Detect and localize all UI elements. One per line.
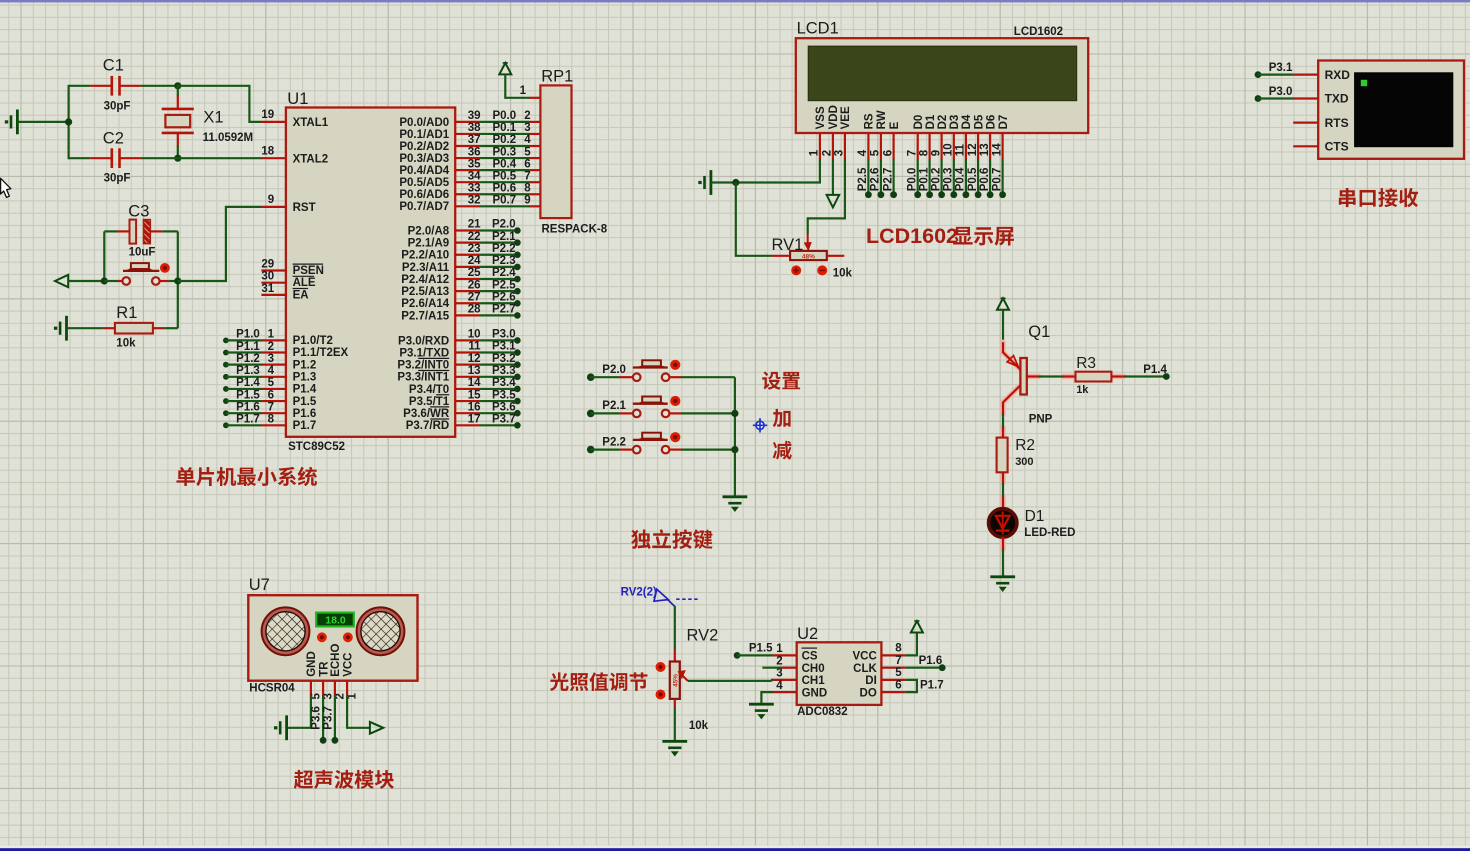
svg-text:HCSR04: HCSR04 (249, 683, 295, 695)
svg-text:P3.0: P3.0 (1269, 86, 1293, 98)
svg-text:8: 8 (918, 149, 930, 156)
svg-text:36: 36 (468, 146, 481, 158)
svg-text:4: 4 (776, 680, 783, 692)
svg-text:38: 38 (468, 122, 481, 134)
svg-text:29: 29 (261, 258, 274, 270)
wire net P2.5 (867, 159, 869, 195)
svg-text:P3.1: P3.1 (1269, 62, 1293, 74)
crystal X1 (177, 95, 179, 109)
svg-text:9: 9 (268, 194, 274, 206)
svg-text:U2: U2 (797, 625, 818, 643)
pin XTAL1 stub (261, 121, 286, 123)
svg-text:RV2(2): RV2(2) (621, 587, 657, 599)
svg-text:P2.4/A12: P2.4/A12 (401, 274, 449, 286)
LCD1 LCD1602 module body (796, 38, 1088, 133)
svg-text:31: 31 (261, 283, 274, 295)
svg-text:P0.6: P0.6 (492, 182, 516, 194)
svg-text:P0.1/AD1: P0.1/AD1 (399, 129, 449, 141)
svg-text:TR: TR (318, 661, 330, 677)
svg-text:P0.7: P0.7 (492, 195, 516, 207)
svg-text:2: 2 (822, 150, 834, 156)
svg-text:P0.0/AD0: P0.0/AD0 (399, 117, 449, 129)
svg-text:P2.5/A13: P2.5/A13 (401, 286, 449, 298)
push button P2.2 (619, 449, 632, 451)
svg-text:P2.0: P2.0 (492, 219, 516, 231)
svg-text:C3: C3 (128, 203, 149, 221)
wire P0.6 (455, 193, 480, 195)
wire P0.2 (455, 145, 480, 147)
svg-text:4: 4 (857, 149, 869, 156)
svg-text:C2: C2 (103, 129, 124, 147)
wire net P0.3 (953, 159, 955, 195)
svg-text:RTS: RTS (1325, 116, 1349, 130)
svg-text:P0.6/AD6: P0.6/AD6 (399, 189, 449, 201)
svg-text:D1: D1 (1025, 508, 1045, 525)
transducer left (262, 607, 310, 655)
svg-text:P1.6: P1.6 (919, 655, 943, 667)
svg-text:19: 19 (261, 109, 274, 121)
svg-text:1: 1 (776, 643, 783, 655)
wire to RV2 top (674, 606, 676, 649)
svg-text:18.0: 18.0 (325, 614, 346, 626)
svg-text:P2.2: P2.2 (602, 436, 626, 448)
node P3.5 (455, 400, 480, 402)
node P3.2 (455, 364, 480, 366)
node P3.0 (455, 339, 480, 341)
ground (U7) (285, 715, 288, 740)
svg-text:7: 7 (524, 170, 530, 182)
svg-text:CH0: CH0 (802, 663, 825, 675)
junction ground rail (65, 118, 72, 125)
node P2.1 (455, 242, 480, 244)
wire Q1 base to R3 (1038, 375, 1064, 377)
svg-text:CTS: CTS (1325, 140, 1349, 154)
terminal arrow left (reset) (55, 275, 68, 287)
svg-text:P1.3: P1.3 (293, 371, 317, 383)
node P2.2 (455, 254, 480, 256)
svg-text:18: 18 (261, 146, 274, 158)
svg-text:P1.0/T2: P1.0/T2 (293, 335, 333, 347)
svg-text:ECHO: ECHO (330, 644, 342, 677)
svg-text:P2.0: P2.0 (602, 364, 626, 376)
svg-text:300: 300 (1015, 456, 1033, 468)
svg-text:VCC: VCC (342, 653, 354, 677)
svg-text:P0.4: P0.4 (492, 158, 516, 170)
svg-text:P1.6: P1.6 (293, 408, 317, 420)
capacitor C2 (90, 157, 111, 159)
junction X1 bottom (174, 155, 181, 162)
svg-text:P2.7: P2.7 (492, 304, 516, 316)
svg-text:28: 28 (468, 304, 481, 316)
svg-text:3: 3 (323, 693, 335, 699)
wire reset to RST pin (178, 207, 262, 281)
svg-text:D2: D2 (937, 115, 949, 130)
svg-text:37: 37 (468, 134, 481, 146)
power terminal (RP1) (499, 63, 511, 75)
svg-text:P0.4: P0.4 (955, 167, 967, 191)
svg-text:P3.0: P3.0 (492, 329, 516, 341)
svg-text:P3.4: P3.4 (492, 377, 516, 389)
svg-text:P1.2: P1.2 (236, 353, 260, 365)
power terminal down (LCD VDD) (832, 159, 834, 195)
IC U2 ADC0832 body (797, 642, 882, 705)
pin DI (U2) (881, 679, 905, 681)
svg-text:XTAL2: XTAL2 (293, 153, 329, 165)
svg-text:D6: D6 (985, 115, 997, 130)
wire P0.3 (455, 157, 480, 159)
wire C2 left (69, 157, 91, 159)
svg-text:P0.3: P0.3 (943, 168, 955, 192)
node P1.6 (223, 410, 229, 416)
node P2.4 (455, 278, 480, 280)
pin GND (U2) (772, 691, 796, 693)
svg-text:10k: 10k (689, 720, 709, 732)
node P2.0 key (587, 373, 595, 381)
svg-text:8: 8 (268, 414, 275, 426)
junction key rail 1 (731, 410, 738, 417)
svg-text:GND: GND (802, 687, 828, 699)
svg-text:15: 15 (468, 389, 481, 401)
svg-text:17: 17 (468, 414, 481, 426)
svg-text:C1: C1 (103, 57, 124, 75)
svg-text:4: 4 (524, 134, 531, 146)
power terminal (U2) (911, 621, 923, 633)
svg-text:P2.6: P2.6 (492, 291, 516, 303)
svg-text:P3.6: P3.6 (311, 706, 323, 730)
adjust buttons (317, 632, 327, 642)
pins PSEN ALE EA (261, 269, 286, 271)
ground (LCD VSS) (710, 170, 713, 195)
node P1.1 (223, 350, 229, 356)
svg-text:E: E (889, 121, 901, 129)
node P3.7 (455, 424, 480, 426)
svg-text:STC89C52: STC89C52 (288, 441, 345, 453)
node P2.0 (455, 229, 480, 231)
ground (RV2) (662, 740, 687, 743)
svg-text:11.0592M: 11.0592M (203, 132, 254, 144)
junction reset left (101, 277, 108, 284)
svg-text:39: 39 (468, 110, 481, 122)
wire VSS to ground (736, 159, 820, 183)
svg-text:P0.5: P0.5 (967, 167, 979, 191)
svg-text:P3.7: P3.7 (323, 706, 335, 730)
wire R2 to D1 (1002, 483, 1004, 497)
caption set (762, 371, 781, 389)
svg-text:32: 32 (468, 195, 481, 207)
svg-text:1: 1 (268, 329, 275, 341)
power terminal right (U7) (370, 722, 383, 734)
pin XTAL2 stub (261, 157, 286, 159)
svg-text:9: 9 (524, 195, 530, 207)
node P2.2 key (587, 446, 595, 454)
svg-text:CLK: CLK (853, 663, 877, 675)
svg-text:P3.3: P3.3 (492, 365, 516, 377)
ground (D1) (990, 575, 1015, 578)
junction reset right (174, 277, 181, 284)
svg-text:P0.7: P0.7 (991, 168, 1003, 192)
svg-text:U1: U1 (287, 90, 308, 108)
wire C2 to XTAL2 (141, 157, 262, 159)
svg-text:P2.5: P2.5 (857, 167, 869, 191)
potentiometer RV2 (10k) (674, 649, 676, 663)
svg-text:P1.5: P1.5 (293, 396, 317, 408)
svg-text:12: 12 (468, 353, 481, 365)
svg-text:R2: R2 (1015, 437, 1035, 454)
svg-text:13: 13 (979, 143, 991, 156)
virtual terminal body (1318, 61, 1464, 159)
svg-text:5: 5 (311, 693, 323, 700)
wire P0.4 (455, 169, 480, 171)
wire net P0.7 (1001, 159, 1003, 195)
svg-text:1: 1 (347, 693, 359, 700)
wire P2.2 to common (681, 449, 735, 451)
svg-text:P2.6/A14: P2.6/A14 (401, 298, 450, 310)
node P1.4 (1163, 373, 1170, 380)
svg-text:35: 35 (468, 158, 481, 170)
svg-text:30: 30 (261, 271, 274, 283)
svg-text:RP1: RP1 (541, 67, 573, 85)
net P3.7 wire (ECHO) (334, 695, 336, 740)
svg-text:P3.5/T1: P3.5/T1 (409, 396, 450, 408)
node P1.7 (223, 422, 229, 428)
svg-text:XTAL1: XTAL1 (293, 117, 329, 129)
svg-text:P2.3: P2.3 (492, 255, 516, 267)
selection marker (753, 418, 767, 432)
svg-text:R3: R3 (1076, 355, 1096, 372)
distance display 18.0 (316, 613, 354, 627)
svg-text:P2.4: P2.4 (492, 267, 516, 279)
svg-text:DO: DO (860, 687, 877, 699)
node P3.3 (455, 376, 480, 378)
svg-text:D5: D5 (973, 114, 985, 129)
node P3.1 to RXD (1255, 71, 1262, 78)
svg-text:DI: DI (865, 675, 877, 687)
wire VSS rail to RV1 (736, 183, 771, 256)
wire net P0.4 (965, 159, 967, 195)
wire C3 left (104, 230, 117, 232)
svg-text:P3.2: P3.2 (492, 353, 516, 365)
potentiometer RV1 (10k) (771, 255, 790, 257)
node P3.1 (455, 351, 480, 353)
caption light adjust (550, 672, 569, 691)
svg-text:5: 5 (895, 667, 902, 679)
mouse cursor (1, 178, 11, 197)
node P2.7 (455, 314, 480, 316)
svg-text:9: 9 (930, 150, 942, 156)
wire P0.1 (455, 133, 480, 135)
svg-text:P1.1/T2EX: P1.1/T2EX (293, 347, 349, 359)
svg-text:P2.7: P2.7 (882, 168, 894, 192)
push button P2.1 (619, 412, 632, 414)
svg-text:D0: D0 (913, 115, 925, 130)
svg-text:P3.1: P3.1 (492, 341, 516, 353)
svg-text:VEE: VEE (840, 106, 852, 129)
svg-text:34: 34 (468, 170, 481, 182)
svg-text:10k: 10k (833, 267, 853, 279)
wire CH0 stub (762, 667, 781, 669)
svg-text:22: 22 (468, 231, 481, 243)
wire key common rail (734, 377, 736, 496)
svg-text:Q1: Q1 (1028, 323, 1050, 341)
svg-text:11: 11 (955, 143, 967, 156)
LDR arrow symbol (654, 589, 698, 606)
svg-text:U7: U7 (249, 576, 270, 594)
wire VEE to RV1 wiper (808, 159, 845, 234)
svg-text:33: 33 (468, 182, 481, 194)
push button P2.0 (619, 376, 632, 378)
svg-text:10uF: 10uF (129, 247, 156, 259)
svg-text:3: 3 (834, 150, 846, 156)
IC U1 STC89C52 body (286, 108, 455, 437)
svg-text:27: 27 (468, 291, 481, 303)
svg-text:P3.5: P3.5 (492, 389, 516, 401)
pin CLK (U2) (881, 667, 905, 669)
svg-text:P0.1: P0.1 (492, 122, 516, 134)
svg-text:10k: 10k (116, 338, 136, 350)
svg-text:P0.5/AD5: P0.5/AD5 (399, 177, 449, 189)
wire CH1 from RV2 (771, 679, 773, 681)
capacitor C1 (90, 85, 111, 87)
wire net P0.1 (928, 159, 930, 195)
svg-text:6: 6 (895, 679, 901, 691)
caption MCU minimal system (176, 467, 194, 486)
wire DI/DO tie P1.7 (905, 680, 917, 692)
svg-text:LED-RED: LED-RED (1024, 527, 1075, 539)
ground (U2) (749, 703, 774, 706)
wire power to RP1 pin1 (505, 74, 529, 97)
resistor R2 (300) (1002, 428, 1004, 439)
wire R1 to reset rail (164, 327, 178, 329)
svg-text:P1.2: P1.2 (293, 359, 317, 371)
svg-text:P1.4: P1.4 (293, 384, 317, 396)
node P2.3 (455, 266, 480, 268)
wire U7 VCC to power (347, 695, 370, 728)
pin CS (U2) (772, 654, 796, 656)
svg-text:P3.7/RD: P3.7/RD (406, 420, 449, 432)
ground (keys) (723, 495, 748, 498)
LED D1 LED-RED (1002, 497, 1004, 510)
svg-text:P1.7: P1.7 (293, 420, 317, 432)
svg-text:5: 5 (870, 149, 882, 156)
net P3.6 wire (TR) (322, 695, 324, 740)
wire net P2.7 (892, 159, 894, 195)
svg-text:GND: GND (306, 651, 318, 677)
caption independent keys (631, 530, 651, 549)
svg-text:P2.7/A15: P2.7/A15 (401, 310, 450, 322)
transistor Q1 PNP (1002, 342, 1123, 549)
wire net P0.6 (989, 159, 991, 195)
svg-text:P2.5: P2.5 (492, 279, 516, 291)
resistor R1 (10k) (104, 327, 116, 329)
wire P0.7 (455, 205, 480, 207)
svg-text:RV2: RV2 (687, 627, 719, 645)
svg-text:P0.3: P0.3 (492, 146, 516, 158)
junction X1 top (174, 82, 181, 89)
junction key rail 2 (731, 446, 738, 453)
wire net P2.6 (880, 159, 882, 195)
svg-text:5: 5 (524, 146, 531, 158)
svg-text:21: 21 (468, 219, 481, 231)
node P1.5 (223, 398, 229, 404)
wire D1 to ground (1002, 549, 1004, 577)
svg-text:8: 8 (895, 643, 902, 655)
node P2.6 (455, 302, 480, 304)
node P1.2 (223, 362, 229, 368)
push button (reset) (104, 280, 119, 282)
svg-text:5: 5 (268, 377, 275, 389)
node P1.6 to CLK (905, 667, 942, 669)
svg-text:P2.1: P2.1 (602, 400, 626, 412)
svg-text:P2.0/A8: P2.0/A8 (408, 225, 450, 237)
svg-text:RXD: RXD (1325, 68, 1351, 82)
svg-text:X1: X1 (203, 109, 223, 127)
svg-text:P1.6: P1.6 (236, 401, 260, 413)
wire ground to crystal node (17, 121, 68, 123)
svg-text:P1.3: P1.3 (236, 365, 260, 377)
svg-text:P0.7/AD7: P0.7/AD7 (399, 201, 449, 213)
module U7 HCSR04 body (248, 595, 417, 681)
LCD screen (808, 46, 1076, 100)
svg-text:RS: RS (864, 113, 876, 129)
svg-text:P3.6/WR: P3.6/WR (403, 408, 450, 420)
svg-text:P3.1/TXD: P3.1/TXD (399, 347, 449, 359)
svg-text:P0.6: P0.6 (979, 168, 991, 192)
svg-text:8: 8 (524, 182, 531, 194)
resistor pack RP1 RESPACK-8 (540, 85, 571, 218)
node P1.5 to CS (734, 652, 741, 659)
svg-text:2: 2 (776, 656, 782, 668)
svg-text:11: 11 (468, 341, 481, 353)
node P1.4 (223, 386, 229, 392)
wire U2 GND to ground (761, 692, 772, 704)
caption serial receive (1339, 188, 1356, 207)
svg-text:14: 14 (991, 143, 1003, 156)
wire net P0.5 (977, 159, 979, 195)
svg-text:ADC0832: ADC0832 (797, 706, 848, 718)
wire C1 left (69, 85, 91, 87)
svg-text:P1.5: P1.5 (236, 389, 260, 401)
pin RST stub (261, 206, 286, 208)
svg-text:RV1: RV1 (772, 236, 804, 254)
svg-text:VSS: VSS (815, 106, 827, 129)
svg-text:D7: D7 (998, 115, 1010, 130)
wire ground to R1 (67, 327, 104, 329)
svg-text:LCD1: LCD1 (797, 20, 839, 38)
wire arrow to button (68, 280, 104, 282)
svg-text:P2.1: P2.1 (492, 231, 516, 243)
wire RV2 to ground (674, 708, 676, 741)
svg-text:RESPACK-8: RESPACK-8 (542, 223, 608, 235)
svg-text:P0.0: P0.0 (907, 168, 919, 192)
wire X1 bottom to C2 net (177, 146, 179, 158)
caption minus (773, 441, 792, 460)
wire VCC to power (905, 633, 917, 656)
svg-text:P2.2: P2.2 (492, 243, 516, 255)
svg-text:D4: D4 (961, 114, 973, 129)
wire C3 right (162, 230, 178, 232)
wire RV2 wiper to CH1 (688, 680, 771, 682)
svg-text:7: 7 (268, 401, 274, 413)
node P2.1 key (587, 410, 595, 418)
svg-text:6: 6 (524, 158, 530, 170)
svg-text:PNP: PNP (1029, 413, 1053, 425)
wire vertical C1/C2 left rail (67, 85, 69, 159)
pin DO (U2) (881, 691, 905, 693)
transducer right (357, 607, 405, 655)
svg-text:VDD: VDD (828, 105, 840, 129)
svg-text:7: 7 (907, 150, 919, 156)
wire U7 GND to ground (287, 695, 311, 728)
